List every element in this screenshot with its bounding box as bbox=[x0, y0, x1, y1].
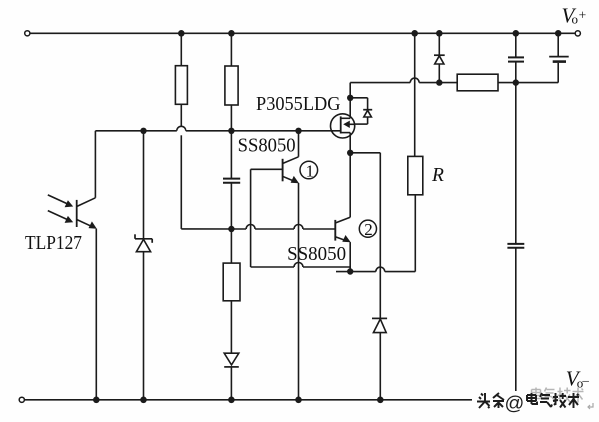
svg-text:+: + bbox=[579, 7, 587, 22]
node top rail / D3 junction bbox=[436, 30, 443, 37]
node top rail / R1 junction bbox=[178, 30, 185, 37]
svg-text:P3055LDG: P3055LDG bbox=[256, 93, 341, 115]
terminal bottom-left bbox=[19, 397, 24, 402]
capacitor C3 (bulk, x=516) bbox=[507, 83, 524, 400]
wire gate node (y=131) bbox=[95, 126, 340, 131]
node top rail / C5 junction bbox=[555, 30, 562, 37]
svg-text:R: R bbox=[431, 165, 444, 186]
wire top rail bbox=[30, 32, 575, 34]
body diode D5 bbox=[350, 98, 372, 124]
svg-text:SS8050: SS8050 bbox=[238, 135, 296, 157]
watermark return arrow bbox=[588, 403, 593, 409]
node ZD1 / rail bbox=[140, 397, 147, 404]
svg-text:–: – bbox=[581, 373, 589, 388]
optocoupler TLP127 bbox=[48, 131, 97, 400]
node D3 bottom bbox=[436, 79, 442, 85]
watermark background knockout bbox=[472, 391, 599, 413]
svg-text:TLP127: TLP127 bbox=[25, 232, 82, 254]
terminal top-right bbox=[575, 31, 580, 36]
node D2 / rail bbox=[228, 397, 235, 404]
diode D2 bbox=[224, 353, 239, 400]
node C1 top bbox=[228, 128, 234, 134]
node top rail / C4 junction bbox=[513, 30, 520, 37]
wire Q2 base (y=229) bbox=[181, 225, 335, 230]
node C1 bottom / R3 top bbox=[228, 226, 234, 232]
node Q1 emitter / rail bbox=[295, 397, 302, 404]
svg-text:2: 2 bbox=[364, 220, 373, 239]
diode D3 bbox=[434, 33, 445, 82]
label Vo+ bbox=[562, 4, 587, 28]
node TLP emitter / rail bbox=[93, 397, 100, 404]
svg-text:@: @ bbox=[505, 393, 525, 415]
resistor R2 bbox=[225, 33, 238, 131]
capacitor C4 bbox=[508, 33, 524, 82]
resistor R5 (R) bbox=[408, 33, 423, 271]
node top rail / R2 junction bbox=[228, 30, 235, 37]
svg-text:1: 1 bbox=[306, 161, 315, 180]
watermark grey echo 电气技术 bbox=[532, 388, 584, 403]
label Vo- bbox=[566, 367, 590, 391]
capacitor C1 (series, x=231) bbox=[223, 131, 240, 229]
resistor R3 bbox=[223, 229, 240, 353]
node D4 / rail bbox=[377, 397, 384, 404]
terminal top-left bbox=[25, 31, 30, 36]
node mosfet drain bbox=[347, 95, 353, 101]
resistor R4 (output series) bbox=[457, 74, 558, 91]
capacitor C5 (electrolytic) bbox=[549, 33, 569, 82]
wire drain node (y=82.6) bbox=[350, 78, 457, 98]
transistor Q1 SS8050 bbox=[251, 131, 299, 400]
wire source to D4 bbox=[350, 153, 380, 319]
resistor R1 bbox=[175, 33, 187, 229]
diode D4 bbox=[372, 318, 387, 399]
wire output node (y=271.6) bbox=[336, 267, 415, 272]
watermark 头条 @电气技术 bbox=[477, 393, 579, 408]
label circled 1 bbox=[300, 161, 318, 180]
wire Q1 base to Q2 emitter (y=267) bbox=[251, 263, 351, 268]
node C4 bottom bbox=[513, 79, 519, 85]
node top rail / R5 junction bbox=[411, 30, 418, 37]
svg-text:o: o bbox=[572, 12, 579, 27]
zener diode ZD1 bbox=[135, 131, 152, 400]
wire bottom rail bbox=[25, 399, 578, 401]
node Q2 emitter junction bbox=[347, 268, 353, 274]
svg-text:SS8050: SS8050 bbox=[287, 243, 346, 265]
node zener top bbox=[140, 128, 146, 134]
transistor Q2 SS8050 bbox=[335, 153, 350, 272]
node Q1 collector bbox=[295, 128, 301, 134]
node mosfet source bbox=[347, 150, 353, 156]
mosfet U1 P3055LDG bbox=[331, 98, 355, 153]
label circled 2 bbox=[359, 220, 376, 239]
